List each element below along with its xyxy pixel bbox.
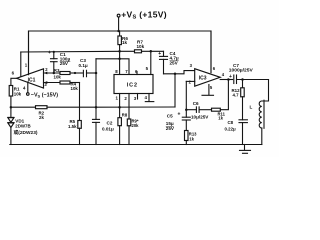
IC2 box [114,75,153,94]
svg-text:1.5k: 1.5k [68,124,77,129]
svg-text:0.01μ: 0.01μ [102,127,114,132]
resistor R3 [44,67,83,79]
wire C1 top to IC1 output [20,52,22,77]
wire IC2 pin3 stub [137,94,139,100]
capacitor C7 [229,63,269,84]
capacitor C3 [79,58,98,76]
capacitor C2 [93,119,114,131]
svg-text:1k: 1k [189,136,194,141]
svg-text:+: + [229,74,232,80]
svg-text:C2: C2 [107,120,113,125]
resistor R6 [118,31,128,53]
resistor R11 feedback from IC3 output [199,80,228,121]
wire IC3 output pin4 [220,72,232,81]
svg-text:10k: 10k [137,44,145,49]
wire IC1 output pin 6 [11,70,17,87]
svg-text:C7: C7 [233,63,239,68]
capacitor C4 [158,51,179,74]
svg-text:10μ/25V: 10μ/25V [191,114,209,119]
wire IC3 pin2 input [185,80,195,111]
svg-text:0.22μ: 0.22μ [225,127,237,132]
zener diode VD1 [8,117,38,144]
svg-text:2k: 2k [39,115,44,120]
wire bottom rail [10,144,262,146]
svg-text:IC2: IC2 [127,82,138,88]
wire mid column x96 [95,59,98,145]
svg-text:1k: 1k [122,40,128,45]
svg-text:R3: R3 [54,68,60,73]
svg-text:10k: 10k [71,86,79,91]
svg-text:+VS (+15V): +VS (+15V) [121,9,167,20]
svg-text:25V: 25V [170,60,179,65]
svg-text:C6: C6 [193,101,199,106]
svg-text:C5: C5 [167,113,173,118]
capacitor C6 [186,101,209,120]
svg-text:25V: 25V [60,61,69,66]
svg-text:IC3: IC3 [199,76,207,82]
capacitor C5 [166,110,191,131]
wire IC3 pin6 top [211,31,216,73]
svg-text:+: + [158,51,161,57]
node +Vs terminal [117,9,167,32]
op-amp IC1 [17,69,44,88]
svg-text:1k: 1k [218,116,223,121]
svg-text:+: + [48,50,51,56]
svg-text:+: + [178,112,181,118]
svg-text:10k: 10k [14,91,22,96]
resistor R13 [185,131,198,145]
wire IC2 pin8 feed [118,51,121,74]
wire IC1 pin4 bottom / -Vs terminal [23,82,58,99]
ground [240,145,251,154]
resistor R4 [44,81,80,91]
svg-text:4.7: 4.7 [233,93,240,98]
svg-text:0.1μ: 0.1μ [79,63,88,68]
op-amp IC3 [195,69,221,87]
wire IC2 pin1 / resistor R8 [118,94,128,145]
svg-text:1000μ/25V: 1000μ/25V [229,68,254,74]
svg-text:10k: 10k [54,75,62,80]
resistor R12 [232,80,245,120]
wire IC2 pin4 ground bar [145,94,154,102]
svg-text:R8: R8 [122,112,128,117]
wire C4 to IC3 pin3 [164,63,195,74]
wire top +V rail [29,31,212,75]
resistor R7 [120,40,164,53]
wire IC3 pin5 / ground bar [202,85,214,96]
wire R4 column / resistor R5 [68,83,81,145]
svg-text:或(2DW23): 或(2DW23) [14,129,38,136]
capacitor C8 [225,120,248,145]
resistor R1 [9,86,21,118]
resistor R2 [11,106,96,120]
svg-text:IC1: IC1 [28,78,36,84]
svg-text:−VS (−15V): −VS (−15V) [31,93,58,99]
wire bias node line to IC2 pin1 and up to IC3 pin3 node [96,73,176,109]
IC2 pin labels top [115,66,148,74]
svg-text:L: L [250,104,253,109]
wire IC2 pin5 [150,51,152,74]
IC2 pin labels bottom [116,95,148,101]
svg-text:C8: C8 [228,120,234,125]
wire IC1 pin1 top [25,31,29,75]
wire IC2 pin6 stub [136,72,138,75]
wire W1 to IC2 pin7 [96,59,129,75]
wire IC2 pin2 / resistor R9 [127,94,139,145]
svg-text:20k: 20k [132,123,140,128]
svg-text:25V: 25V [166,126,175,131]
capacitor C1 [21,50,120,74]
svg-text:2DW7B: 2DW7B [15,124,30,129]
loudspeaker L [250,80,269,145]
